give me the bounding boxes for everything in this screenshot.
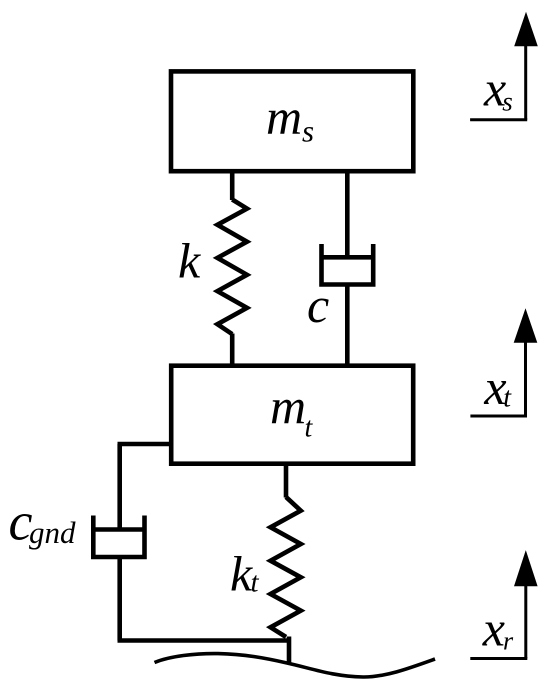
- spring k: [217, 200, 247, 335]
- svg-text:t: t: [251, 567, 260, 599]
- damper cgnd cylinder: [93, 516, 144, 558]
- ground road wavy line: [155, 654, 436, 677]
- wire mt to cgnd top: [118, 442, 172, 447]
- node xs axis: [470, 44, 527, 120]
- svg-text:gnd: gnd: [29, 515, 76, 550]
- svg-text:x: x: [482, 601, 505, 657]
- svg-text:t: t: [305, 413, 314, 444]
- mass ms box: [171, 71, 413, 171]
- node xr arrowhead: [514, 550, 538, 586]
- svg-text:m: m: [270, 378, 306, 434]
- label xr: [482, 601, 514, 657]
- wire damper c bottom rod: [345, 285, 350, 367]
- svg-text:m: m: [266, 89, 302, 145]
- damper cgnd piston: [93, 527, 144, 532]
- svg-text:t: t: [503, 383, 512, 414]
- damper c cylinder: [322, 244, 374, 285]
- wire spring kt top rod: [284, 464, 289, 498]
- label xs: [483, 60, 513, 116]
- node xs arrowhead: [514, 12, 538, 47]
- wire spring k bottom rod: [230, 334, 235, 367]
- label cgnd: [9, 492, 77, 552]
- wire spring k top rod: [230, 171, 235, 200]
- wire cgnd bottom rod: [117, 557, 122, 641]
- label xt: [483, 359, 512, 415]
- wire damper c top rod: [345, 171, 350, 257]
- node xt axis: [470, 340, 527, 416]
- node xt arrowhead: [514, 308, 538, 342]
- damper c piston: [322, 255, 374, 260]
- svg-text:r: r: [503, 627, 514, 656]
- spring kt: [271, 497, 301, 637]
- svg-text:s: s: [502, 86, 513, 116]
- wire spring kt bottom rod: [287, 637, 292, 664]
- svg-text:c: c: [307, 277, 329, 333]
- svg-text:s: s: [302, 114, 314, 149]
- label kt: [230, 546, 260, 602]
- label ms: [266, 89, 314, 149]
- mass mt box: [171, 366, 413, 464]
- node xr axis: [470, 584, 527, 659]
- wire cgnd to kt bottom: [118, 638, 290, 643]
- wire cgnd top rod: [117, 444, 122, 530]
- label mt: [270, 378, 314, 444]
- svg-text:k: k: [178, 233, 201, 289]
